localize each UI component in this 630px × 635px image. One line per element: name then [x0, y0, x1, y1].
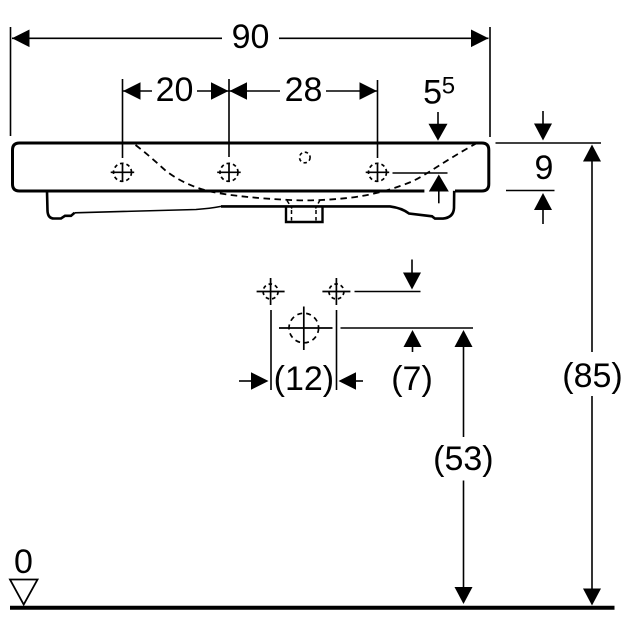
dimension (12) [239, 310, 363, 390]
anchor hole left [257, 278, 285, 305]
tap hole left [111, 163, 135, 182]
svg-text:(53): (53) [433, 440, 493, 478]
trap hidden lines [287, 200, 320, 221]
svg-text:90: 90 [232, 18, 270, 56]
datum triangle [10, 580, 38, 605]
svg-text:5: 5 [423, 73, 442, 111]
dimension 9 [496, 111, 602, 224]
arrow 5.5 lower [438, 191, 440, 204]
svg-text:(85): (85) [562, 357, 622, 395]
dimension (85) [591, 161, 593, 589]
tap hole center [217, 163, 241, 182]
dimension 90 [11, 27, 491, 137]
svg-text:(12): (12) [274, 360, 334, 398]
svg-text:(7): (7) [391, 360, 433, 398]
floor line [10, 606, 615, 610]
dimension (53) [463, 347, 465, 588]
svg-text:9: 9 [535, 149, 554, 187]
inner bowl hidden contour [136, 143, 479, 201]
dimension 20 [123, 79, 230, 158]
drain hole [279, 307, 333, 351]
dimension (7) [341, 260, 474, 353]
apron underside profile right [221, 191, 454, 219]
apron underside thin bottom line [75, 206, 222, 212]
svg-text:28: 28 [285, 71, 323, 109]
arrow 5.5 upper [437, 112, 439, 125]
tap axis line [393, 172, 448, 174]
trap cover box [286, 207, 323, 222]
svg-text:5: 5 [442, 72, 455, 99]
dimension 28 [230, 80, 378, 158]
washbasin body outline [13, 143, 489, 191]
svg-text:20: 20 [156, 71, 194, 109]
tap hole right [366, 163, 390, 182]
overflow hole [300, 152, 311, 163]
anchor hole right [322, 278, 350, 305]
apron underside profile left foot [47, 191, 75, 219]
svg-text:0: 0 [14, 543, 33, 581]
